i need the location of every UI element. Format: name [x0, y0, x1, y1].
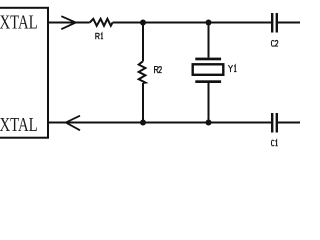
label R2 [155, 67, 162, 74]
wire: R2 bottom lead [142, 83, 144, 123]
IC box (left, partially cropped) [0, 8, 48, 138]
arrow (pointing right, out of box) [61, 16, 76, 29]
resistor R2 [139, 61, 146, 83]
svg-text:XTAL: XTAL [0, 114, 38, 136]
svg-text:XTAL: XTAL [0, 11, 38, 33]
label C2 [271, 40, 278, 46]
node: junction dot bottom-left (R2) [140, 120, 146, 126]
arrow (pointing left, into box) [66, 116, 80, 131]
capacitor C2 [271, 13, 278, 33]
resistor R1 [90, 19, 113, 26]
wire: top, C2 to right edge [278, 22, 300, 24]
capacitor C1 [271, 113, 278, 133]
wire: bottom, box to C1 [48, 122, 271, 124]
node: junction dot bottom-right (Y1) [206, 120, 212, 126]
pin label XTAL (top) [0, 11, 38, 33]
label R1 [96, 33, 103, 39]
wire: Y1 top lead [208, 23, 210, 58]
wire: bottom, C1 to right edge [278, 122, 300, 124]
pin label XTAL (bottom) [0, 114, 38, 136]
node: junction dot top-right (Y1 tap) [206, 20, 212, 26]
label C1 [271, 140, 277, 146]
crystal Y1 [193, 58, 224, 83]
wire: R2 top lead [142, 23, 144, 62]
wire: Y1 bottom lead [208, 83, 210, 123]
wire: top, box to R1 [48, 22, 90, 24]
label Y1 [228, 65, 236, 72]
node: junction dot top-left (R2 tap) [140, 20, 146, 26]
wire: top, R1 to C2 [113, 22, 271, 24]
